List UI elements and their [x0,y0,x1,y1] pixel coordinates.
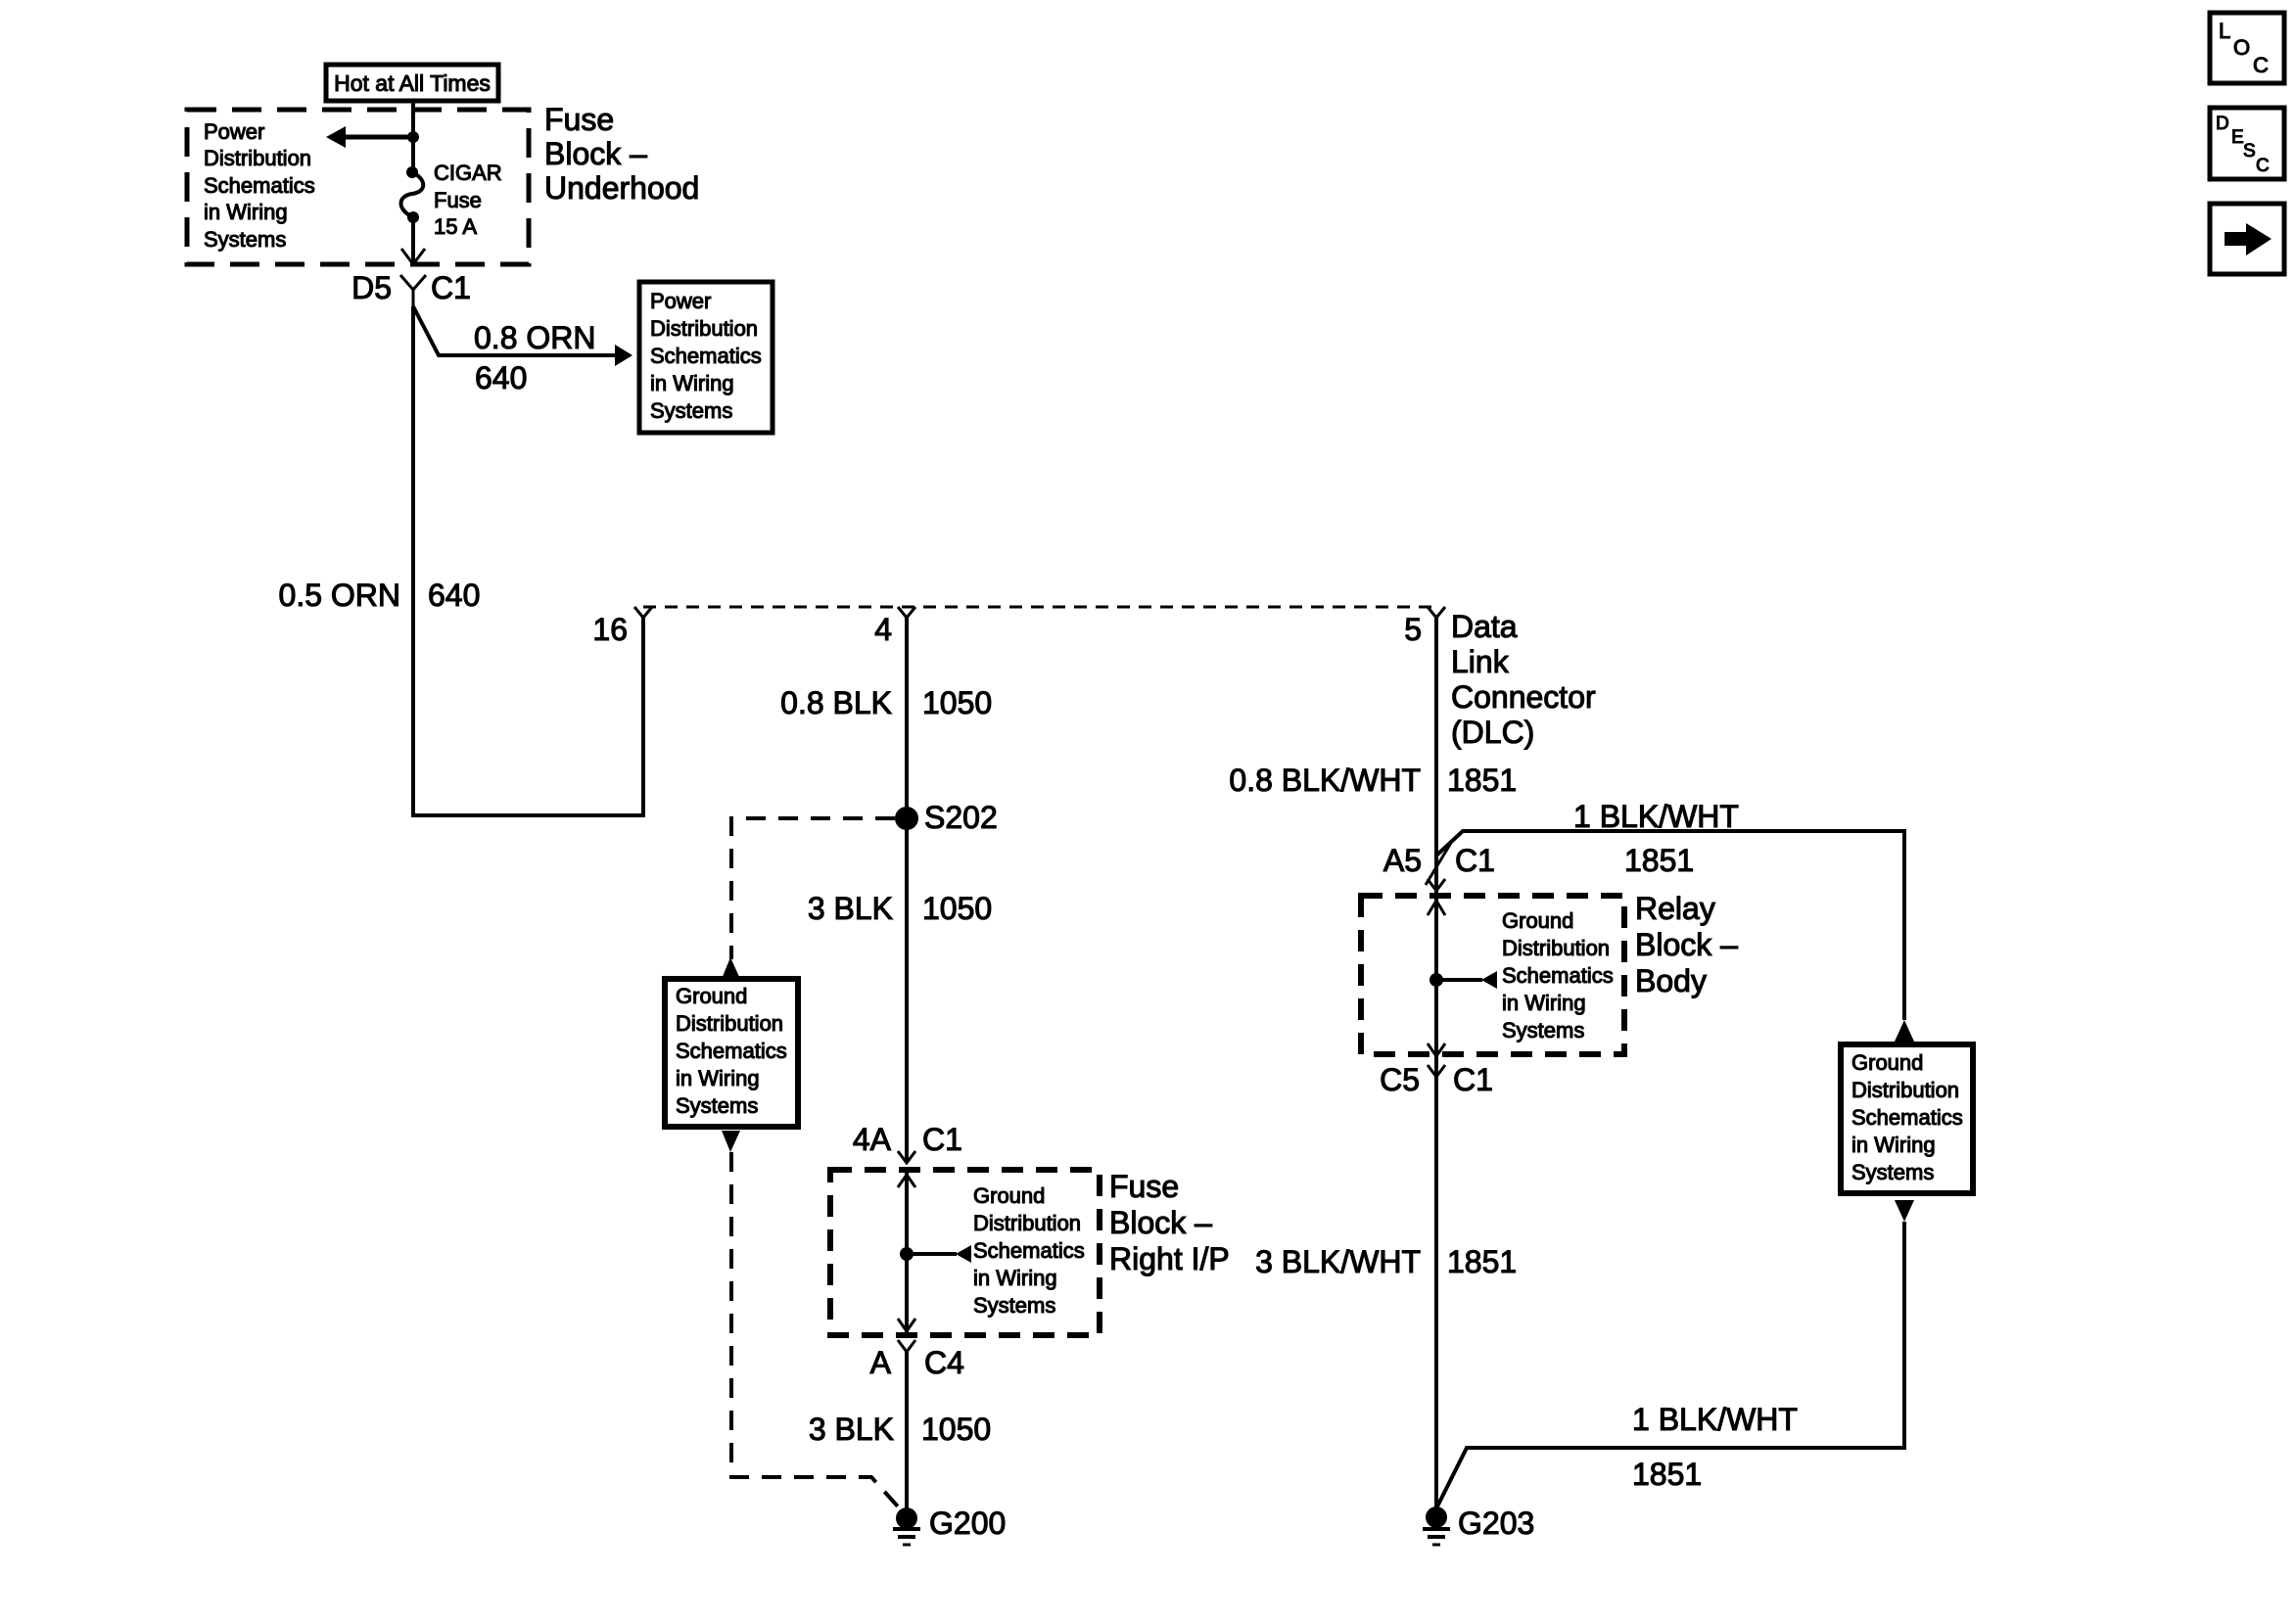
svg-text:1050: 1050 [922,891,992,926]
wire: 3 BLK/WHT 1851 to G203 [1434,1056,1438,1517]
header box: Hot at All Times [326,65,498,101]
svg-text:Distribution: Distribution [676,1011,783,1036]
note: Ground Distribution Schematics in Wiring Systems (fuse block right I/P) [973,1183,1085,1318]
svg-text:D: D [2216,114,2229,134]
svg-text:C1: C1 [922,1122,962,1157]
fuse block - right I/P dashed outline [830,1170,1100,1335]
ground G200 [893,1507,920,1545]
svg-text:Systems: Systems [1851,1160,1934,1184]
svg-text:Link: Link [1451,644,1510,679]
arrow to ground distribution note (fuse block right I/P) [907,1245,971,1263]
ground G203 [1423,1506,1450,1545]
svg-text:Systems: Systems [1502,1018,1584,1043]
svg-text:S202: S202 [924,800,998,835]
svg-text:Schematics: Schematics [676,1039,787,1063]
svg-text:Systems: Systems [650,398,732,423]
icon: next page arrow button [2210,204,2284,274]
svg-text:Distribution: Distribution [973,1211,1081,1235]
wire: battery feed from Hot at All Times [411,99,415,138]
svg-text:Schematics: Schematics [1851,1105,1963,1130]
wire (dashed) from ground note to G200 [731,1152,907,1516]
svg-text:3 BLK/WHT: 3 BLK/WHT [1255,1244,1421,1279]
svg-text:Ground: Ground [1502,908,1573,933]
svg-text:0.8 ORN: 0.8 ORN [474,320,595,355]
svg-text:C: C [2256,156,2270,176]
svg-text:O: O [2233,35,2250,60]
relay block - body dashed outline [1361,896,1624,1054]
svg-text:G200: G200 [929,1506,1006,1541]
svg-text:Fuse: Fuse [544,102,614,137]
svg-text:(DLC): (DLC) [1451,715,1534,750]
wire through relay block body [1428,896,1445,1056]
wire: 3 BLK 1050 from S202 [905,818,909,1163]
svg-text:Power: Power [650,289,711,313]
wire: 0.8 BLK/WHT 1851 from DLC pin 5 [1434,618,1438,896]
svg-text:in Wiring: in Wiring [204,200,288,224]
svg-text:16: 16 [592,612,628,647]
svg-text:C: C [2253,53,2269,77]
svg-text:Power: Power [204,119,264,144]
note box: Ground Distribution Schematics in Wiring Systems (right) [1841,1044,1973,1193]
svg-text:C1: C1 [1455,843,1495,878]
junction: feed node [407,131,419,143]
arrow out of right ground note box [1895,1200,1914,1222]
svg-text:Relay: Relay [1635,891,1715,926]
svg-text:Systems: Systems [973,1293,1055,1318]
junction in fuse block right I/P [900,1247,914,1261]
wire: 0.8 BLK 1050 [905,618,909,818]
svg-text:C1: C1 [431,270,471,305]
svg-text:15 A: 15 A [434,214,477,239]
svg-text:in Wiring: in Wiring [676,1066,760,1090]
svg-text:1 BLK/WHT: 1 BLK/WHT [1632,1402,1798,1437]
svg-text:in Wiring: in Wiring [1851,1133,1936,1157]
label: Relay Block - Body [1635,891,1738,998]
label: CIGAR Fuse 15 A [434,161,502,239]
svg-text:Fuse: Fuse [1109,1169,1179,1204]
svg-text:4: 4 [874,612,892,647]
arrow into left ground note box [722,957,740,979]
svg-text:Distribution: Distribution [1502,936,1610,960]
svg-text:640: 640 [428,578,480,613]
wire: 1 BLK/WHT 1851 upper branch to right ground note [1436,831,1904,1020]
note box: Power Distribution Schematics in Wiring Systems [639,282,773,433]
svg-text:D5: D5 [351,270,392,305]
svg-text:3 BLK: 3 BLK [808,891,893,926]
fuse block - underhood dashed outline [187,110,529,264]
fuse F: CIGAR Fuse 15 A [401,137,426,264]
svg-text:A: A [870,1345,892,1380]
wire: 3 BLK 1050 to G200 [905,1352,909,1518]
svg-text:Fuse: Fuse [434,188,482,212]
icon: LOC button [2210,13,2284,83]
svg-text:Systems: Systems [204,227,286,252]
splice S202 [895,807,918,830]
svg-text:CIGAR: CIGAR [434,161,502,185]
svg-text:640: 640 [475,360,527,395]
label: Data Link Connector (DLC) [1451,609,1596,750]
svg-text:1851: 1851 [1624,843,1694,878]
svg-text:Systems: Systems [676,1093,758,1118]
note: Ground Distribution Schematics in Wiring Systems (relay block body) [1502,908,1614,1043]
icon: DESC button [2210,108,2284,179]
svg-text:Ground: Ground [973,1183,1045,1208]
svg-text:Schematics: Schematics [973,1238,1085,1263]
svg-text:G203: G203 [1458,1506,1534,1541]
svg-text:1050: 1050 [921,1412,991,1447]
label: Fuse Block - Underhood [544,102,699,206]
wire through fuse block right I/P [898,1170,915,1333]
connector 4A/C1 [898,1151,915,1163]
wire: 1 BLK/WHT 1851 lower branch from right ground note to G203 [1436,1222,1904,1508]
connector C5/C1 [1428,1065,1445,1077]
svg-text:in Wiring: in Wiring [1502,991,1586,1015]
svg-text:C4: C4 [924,1345,964,1380]
data link connector DLC dashed line [643,606,1436,609]
svg-text:Data: Data [1451,609,1518,644]
svg-text:Ground: Ground [1851,1050,1923,1075]
svg-text:Body: Body [1635,963,1707,998]
svg-text:Ground: Ground [676,984,747,1008]
svg-text:Schematics: Schematics [204,173,315,198]
svg-text:0.8 BLK/WHT: 0.8 BLK/WHT [1229,763,1421,798]
svg-text:Block –: Block – [544,136,647,171]
svg-text:Right I/P: Right I/P [1109,1241,1230,1276]
pin 4 [898,607,915,636]
svg-text:0.8 BLK: 0.8 BLK [780,685,892,720]
svg-text:Schematics: Schematics [650,344,762,368]
svg-text:Hot at All Times: Hot at All Times [334,70,491,96]
wire (dashed) from S202 to ground distribution note [731,818,895,959]
svg-text:C5: C5 [1380,1062,1420,1097]
svg-text:Underhood: Underhood [544,170,699,206]
wire: 0.8 ORN 640 branch with arrow [413,306,633,366]
arrow to ground distribution note (relay block body) [1436,971,1497,989]
svg-text:Distribution: Distribution [204,146,311,170]
svg-text:1851: 1851 [1447,1244,1517,1279]
svg-text:in Wiring: in Wiring [973,1266,1057,1290]
svg-text:Block –: Block – [1109,1205,1212,1240]
svg-text:S: S [2243,141,2256,162]
svg-text:A5: A5 [1383,843,1422,878]
svg-text:in Wiring: in Wiring [650,371,734,395]
svg-text:3 BLK: 3 BLK [809,1412,894,1447]
connector A/C4 [898,1340,915,1352]
svg-text:1851: 1851 [1447,763,1517,798]
svg-text:Distribution: Distribution [650,316,758,341]
svg-text:L: L [2219,19,2230,43]
svg-text:Distribution: Distribution [1851,1078,1959,1102]
label: Fuse Block - Right I/P [1109,1169,1230,1276]
svg-text:C1: C1 [1453,1062,1493,1097]
svg-text:5: 5 [1404,612,1422,647]
note: Power Distribution Schematics in Wiring Systems (in fuse block) [204,119,315,252]
svg-text:Connector: Connector [1451,679,1596,715]
svg-text:1851: 1851 [1632,1457,1702,1492]
svg-text:E: E [2231,127,2244,148]
note box: Ground Distribution Schematics in Wiring Systems (left) [665,979,798,1127]
junction in relay block body [1429,973,1443,987]
svg-text:1050: 1050 [922,685,992,720]
arrow into right ground note box [1895,1020,1914,1042]
svg-text:Schematics: Schematics [1502,963,1614,988]
arrow out of left ground note box [722,1131,740,1152]
connector D5/C1 [400,275,426,307]
pin 16 [634,607,652,618]
pin 5 [1428,607,1445,636]
svg-text:4A: 4A [853,1122,892,1157]
svg-text:Block –: Block – [1635,927,1738,962]
svg-text:0.5 ORN: 0.5 ORN [279,578,400,613]
wire: 0.5 ORN 640 run to DLC pin 16 [413,306,643,815]
svg-text:1 BLK/WHT: 1 BLK/WHT [1573,799,1739,834]
connector A5/C1 [1426,843,1451,891]
wire: arrow to power distribution schematics [326,126,413,148]
